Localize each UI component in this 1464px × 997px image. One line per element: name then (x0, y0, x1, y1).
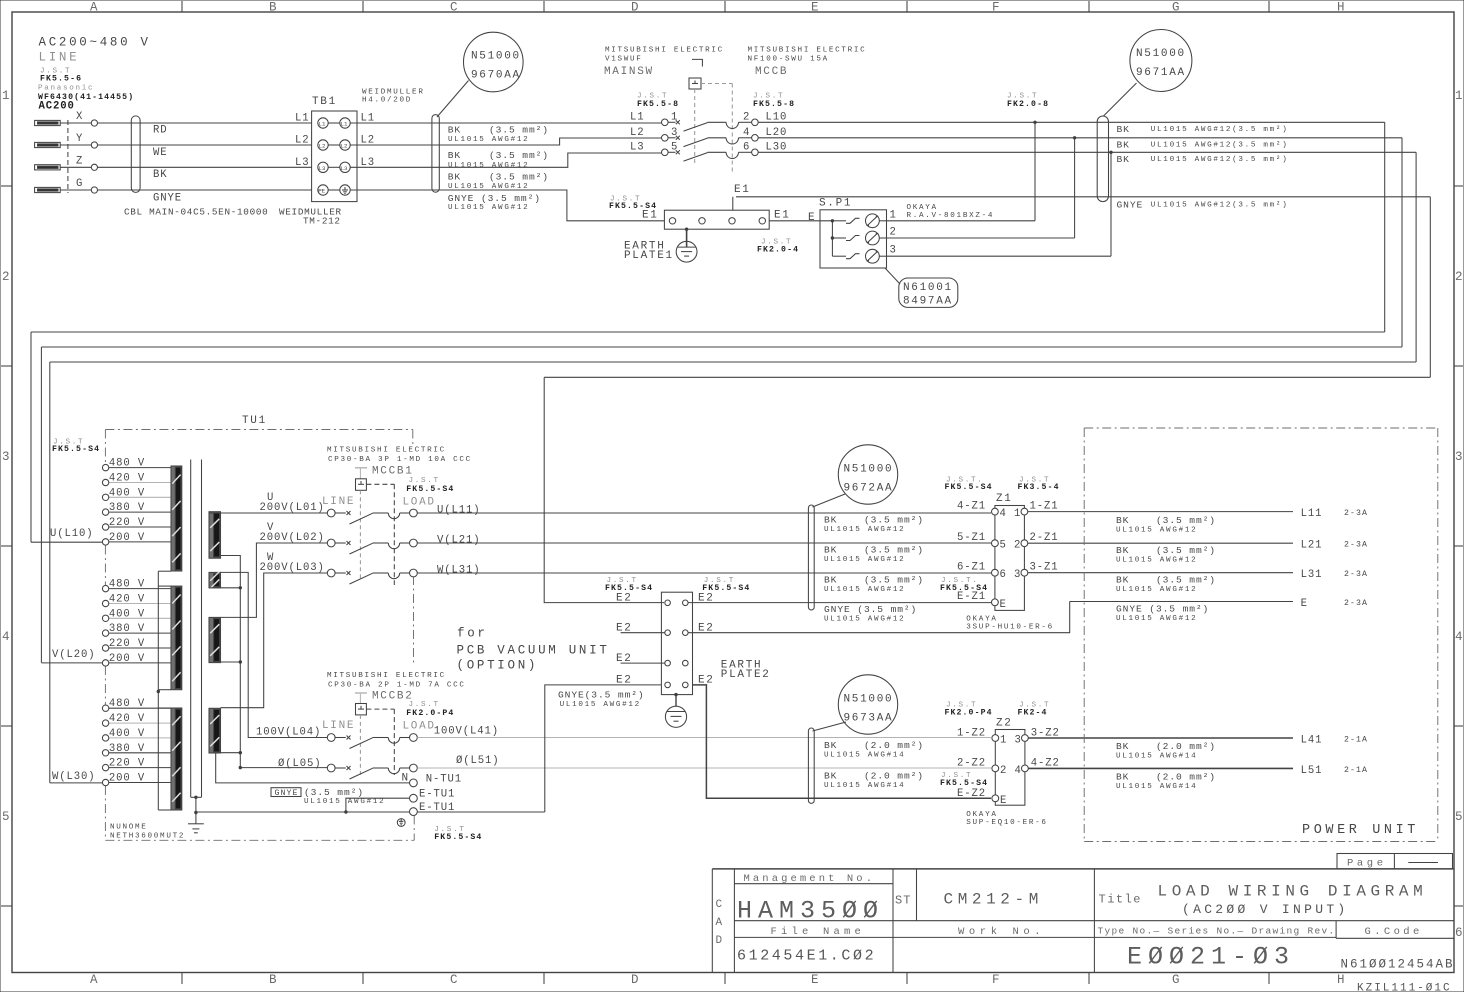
svg-text:C: C (450, 973, 460, 987)
svg-text:TB1: TB1 (312, 96, 337, 108)
svg-text:BK: BK (1116, 741, 1129, 752)
TU1 primary winding P2 (171, 586, 182, 690)
svg-text:FK5.5-S4: FK5.5-S4 (940, 584, 988, 593)
svg-text:BK: BK (1117, 154, 1130, 165)
svg-text:3: 3 (1455, 450, 1464, 464)
dashed cable boundary at input (67, 120, 69, 193)
svg-text:BK: BK (448, 124, 461, 135)
svg-text:(3.5 mm²): (3.5 mm²) (489, 172, 549, 183)
wire E1 riser to GNYE bus (732, 197, 734, 210)
svg-text:4-Z1: 4-Z1 (957, 501, 986, 513)
svg-text:GNYE: GNYE (153, 193, 182, 205)
svg-text:BK: BK (1117, 124, 1130, 135)
svg-text:L10: L10 (766, 111, 788, 123)
svg-text:EØØ21-Ø3: EØØ21-Ø3 (1127, 943, 1295, 972)
svg-text:2: 2 (743, 111, 750, 123)
svg-text:File Name: File Name (771, 926, 866, 938)
TU1 primary tap 220 V group 3 (109, 767, 171, 769)
svg-text:3: 3 (671, 127, 678, 139)
svg-text:LINE: LINE (322, 496, 355, 508)
svg-text:MCCB2: MCCB2 (372, 691, 414, 703)
svg-text:UL1015 AWG#14: UL1015 AWG#14 (824, 782, 905, 790)
TB1 terminal pair L3 (318, 162, 328, 172)
svg-text:UL1015 AWG#12(3.5 mm²): UL1015 AWG#12(3.5 mm²) (1151, 125, 1289, 134)
svg-text:BK: BK (824, 771, 837, 782)
svg-text:GNYE: GNYE (1117, 200, 1144, 211)
wire Z to TB1 (60, 166, 91, 168)
svg-text:(AC2ØØ V INPUT): (AC2ØØ V INPUT) (1182, 902, 1349, 917)
wire W(L31) to Z1 (417, 572, 991, 574)
TU1 primary tap 380 V group 2 (109, 632, 171, 634)
svg-text:Z2: Z2 (996, 718, 1013, 730)
svg-text:420 V: 420 V (109, 473, 145, 485)
wire Z2 out 3 to L41 (1028, 737, 1293, 739)
svg-text:D: D (631, 973, 641, 987)
svg-text:for: for (457, 627, 488, 641)
svg-text:9671AA: 9671AA (1136, 67, 1186, 79)
MCCB1 operator box (356, 479, 367, 491)
MCCB2 linkage dashed black (366, 708, 394, 710)
cable sheath capsule right (1097, 116, 1108, 202)
svg-text:3: 3 (1015, 735, 1022, 747)
svg-text:UL1015 AWG#12: UL1015 AWG#12 (1116, 527, 1197, 535)
svg-text:UL1015 AWG#14: UL1015 AWG#14 (1116, 783, 1197, 791)
svg-text:N61ØØ12454AB: N61ØØ12454AB (1341, 958, 1455, 972)
svg-text:N51000: N51000 (1136, 48, 1186, 60)
svg-text:AC200~480 V: AC200~480 V (39, 36, 151, 50)
MAINSW operator box (689, 78, 701, 89)
TU1 primary tap 420 V group 2 (109, 603, 171, 605)
svg-text:(3.5 mm²): (3.5 mm²) (1156, 545, 1216, 556)
svg-text:BK: BK (824, 545, 837, 556)
svg-text:5: 5 (671, 141, 678, 153)
svg-text:4: 4 (743, 127, 750, 139)
wire L10 to right edge (758, 121, 1384, 123)
svg-text:2-3A: 2-3A (1344, 509, 1368, 518)
svg-text:8497AA: 8497AA (903, 296, 953, 308)
crimp terminal lead G (35, 187, 61, 192)
svg-text:E-TU1: E-TU1 (419, 789, 455, 801)
svg-text:N51000: N51000 (844, 464, 894, 476)
svg-text:2: 2 (2, 270, 12, 284)
svg-text:200V(L03): 200V(L03) (260, 562, 325, 574)
svg-text:Z: Z (76, 155, 83, 167)
svg-text:UL1015 AWG#12: UL1015 AWG#12 (448, 183, 529, 191)
TU1 primary tap 220 V group 1 (109, 526, 171, 528)
svg-text:X: X (76, 111, 83, 123)
svg-text:UL1015 AWG#12: UL1015 AWG#12 (1116, 557, 1197, 565)
svg-text:G: G (1172, 1, 1182, 15)
TU1 secondary winding A (209, 512, 221, 559)
MCCB2 pole 2 (327, 764, 335, 772)
svg-text:S.P1: S.P1 (819, 198, 852, 210)
svg-text:(3.5 mm²): (3.5 mm²) (489, 150, 549, 161)
TU1 primary tap 380 V group 1 (109, 511, 171, 513)
ground symbol earth plate2 (675, 695, 677, 707)
svg-text:W(L31): W(L31) (437, 565, 481, 577)
svg-text:380 V: 380 V (109, 743, 145, 755)
svg-text:C: C (716, 899, 724, 911)
Z2 terminal pair 1/3 (992, 735, 999, 742)
wire E1 plate to S.P1 (769, 220, 832, 222)
svg-text:FK5.5-S4: FK5.5-S4 (945, 483, 993, 492)
svg-text:(2.0 mm²): (2.0 mm²) (864, 771, 924, 782)
svg-text:L2: L2 (295, 135, 310, 147)
terminal plate E2 (earth plate 2) (661, 592, 692, 694)
TU1 primary tap 480 V group 2 (109, 588, 171, 590)
svg-text:LOAD: LOAD (403, 497, 436, 509)
svg-text:L1: L1 (319, 121, 326, 128)
wire U(L11) to Z1 (417, 512, 991, 514)
svg-text:BK: BK (824, 575, 837, 586)
MAINSW operator handle mark (692, 59, 702, 66)
svg-text:FK5.5-S4: FK5.5-S4 (52, 445, 100, 454)
svg-text:NETH3600MUT2: NETH3600MUT2 (110, 833, 185, 841)
svg-text:6: 6 (1000, 569, 1007, 581)
crimp terminal lead X (35, 120, 61, 125)
svg-text:L3: L3 (295, 157, 310, 169)
svg-text:G: G (76, 178, 83, 190)
svg-text:1: 1 (890, 209, 897, 221)
wire V(L21) to Z1 (417, 542, 991, 544)
svg-text:2-1A: 2-1A (1344, 766, 1368, 775)
svg-text:F: F (992, 973, 1002, 987)
svg-text:1-Z1: 1-Z1 (1030, 501, 1059, 513)
wire Z1 out 2 to L21 (1028, 542, 1293, 544)
svg-text:PLATE1: PLATE1 (624, 250, 674, 262)
TU1 primary tap 380 V group 3 (109, 752, 171, 754)
svg-text:MCCB1: MCCB1 (372, 466, 414, 478)
svg-text:OKAYA: OKAYA (966, 811, 997, 819)
svg-text:UL1015 AWG#12: UL1015 AWG#12 (448, 204, 529, 212)
svg-text:LOAD: LOAD (403, 721, 436, 733)
svg-text:(3.5 mm²): (3.5 mm²) (304, 787, 364, 798)
svg-text:UL1015 AWG#12: UL1015 AWG#12 (824, 586, 905, 594)
TU1 primary tap 480 V group 3 (109, 707, 171, 709)
svg-text:3: 3 (890, 245, 897, 257)
wire E2 row1 to Z1 E (688, 602, 991, 604)
svg-text:D: D (631, 1, 641, 15)
svg-text:Management No.: Management No. (744, 873, 876, 885)
TU1 primary tap 400 V group 3 (109, 737, 171, 739)
balloon N51000 9670AA (464, 32, 524, 92)
TU1 primary series rail (157, 571, 159, 810)
svg-text:400 V: 400 V (109, 608, 145, 620)
Z1 terminal pair 6/3 (992, 569, 999, 576)
S.P1 arrester element 3 (832, 255, 846, 257)
svg-text:100V(L41): 100V(L41) (434, 726, 499, 738)
svg-text:(3.5 mm²): (3.5 mm²) (1156, 515, 1216, 526)
svg-text:420 V: 420 V (109, 594, 145, 606)
svg-text:Page: Page (1347, 858, 1387, 870)
svg-text:(3.5 mm²): (3.5 mm²) (864, 545, 924, 556)
bus wire GNYE vertical to E2 (544, 377, 664, 602)
svg-text:2: 2 (1000, 765, 1007, 777)
svg-text:CP30-BA 3P 1-MD 10A CCC: CP30-BA 3P 1-MD 10A CCC (328, 456, 472, 464)
wire E output (1070, 601, 1293, 603)
MAINSW linkage dashed (694, 89, 696, 163)
wire Z1 out 1 to L11 (1028, 511, 1293, 513)
svg-text:6: 6 (1455, 926, 1464, 940)
wire Z2 out 4 to L51 (1028, 767, 1293, 769)
svg-text:3SUP-HU10-ER-6: 3SUP-HU10-ER-6 (966, 623, 1054, 631)
TU1 core to ground (191, 796, 202, 798)
balloon N51000 9673AA (838, 675, 897, 734)
svg-text:(3.5 mm²): (3.5 mm²) (489, 124, 549, 135)
MCCB thermal element pole 2 (708, 121, 727, 123)
TU1 primary tap 400 V group 1 (109, 496, 171, 498)
svg-text:Z1: Z1 (996, 493, 1013, 505)
svg-text:BK: BK (1116, 575, 1129, 586)
svg-text:V(L20): V(L20) (52, 649, 96, 661)
svg-text:UL1015 AWG#12: UL1015 AWG#12 (824, 556, 905, 564)
svg-text:PLATE2: PLATE2 (721, 669, 771, 681)
svg-text:220 V: 220 V (109, 758, 145, 770)
wire L2 TB1 to MAINSW (jog) (350, 138, 661, 145)
TU1 box right edge lower (413, 816, 415, 841)
svg-text:1-Z2: 1-Z2 (957, 727, 986, 739)
svg-text:MITSUBISHI ELECTRIC: MITSUBISHI ELECTRIC (327, 447, 446, 455)
svg-text:FK5.5-8: FK5.5-8 (637, 100, 679, 109)
svg-text:H: H (1337, 1, 1347, 15)
svg-text:BK: BK (1116, 515, 1129, 526)
svg-text:200V(L02): 200V(L02) (260, 532, 325, 544)
svg-text:CP30-BA 2P 1-MD 7A CCC: CP30-BA 2P 1-MD 7A CCC (328, 682, 466, 690)
cable sheath capsule 2 (432, 115, 439, 193)
svg-text:(3.5 mm²): (3.5 mm²) (864, 575, 924, 586)
MCCB linkage dashed (701, 83, 732, 85)
svg-text:400 V: 400 V (109, 728, 145, 740)
svg-text:LINE: LINE (39, 51, 80, 65)
wire Z1 out 3 to L31 (1028, 572, 1293, 574)
svg-text:UL1015 AWG#12(3.5 mm²): UL1015 AWG#12(3.5 mm²) (1151, 141, 1289, 150)
MCCB1 pole 3 (327, 569, 335, 577)
wire GNYE E1 to right edge (736, 196, 1430, 198)
svg-text:480 V: 480 V (109, 698, 145, 710)
svg-text:E2: E2 (616, 593, 633, 605)
svg-text:2-3A: 2-3A (1344, 599, 1368, 608)
svg-text:POWER UNIT: POWER UNIT (1302, 823, 1419, 838)
svg-text:A: A (716, 917, 724, 929)
S.P1 arrester element 1 (832, 220, 846, 222)
TU1 primary winding P1 (171, 466, 182, 571)
svg-text:MAINSW: MAINSW (604, 66, 654, 78)
svg-text:FK5.5-S4: FK5.5-S4 (434, 833, 482, 842)
svg-text:FK2.0-8: FK2.0-8 (1007, 100, 1049, 109)
svg-text:L41: L41 (1301, 735, 1323, 747)
svg-text:MITSUBISHI ELECTRIC: MITSUBISHI ELECTRIC (748, 47, 867, 55)
TU1 primary tap 400 V group 2 (109, 617, 171, 619)
svg-text:2-1A: 2-1A (1344, 736, 1368, 745)
svg-text:2-3A: 2-3A (1344, 570, 1368, 579)
svg-text:A: A (90, 1, 100, 15)
S.P1 pin 1 wire (887, 220, 1036, 222)
bus wire L30 left vertical (49, 362, 51, 783)
svg-text:Ø(L05): Ø(L05) (278, 758, 322, 770)
svg-text:4: 4 (2, 630, 12, 644)
svg-text:GNYE(3.5 mm²): GNYE(3.5 mm²) (558, 690, 645, 701)
svg-text:E1: E1 (734, 184, 751, 196)
cable sheath capsule Z1 (808, 505, 814, 610)
svg-text:UL1015 AWG#12(3.5 mm²): UL1015 AWG#12(3.5 mm²) (1151, 155, 1289, 164)
svg-text:MITSUBISHI ELECTRIC: MITSUBISHI ELECTRIC (605, 47, 724, 55)
svg-text:FK2.0-P4: FK2.0-P4 (406, 709, 454, 718)
svg-text:GNYE: GNYE (275, 789, 299, 798)
svg-text:UL1015 AWG#12: UL1015 AWG#12 (824, 526, 905, 534)
wire L20 to right edge (758, 137, 1402, 139)
svg-text:L2: L2 (630, 127, 645, 139)
svg-text:L3: L3 (319, 165, 326, 172)
wire GNYE TB1 to earth plate E1 (jog) (350, 190, 664, 221)
svg-text:TU1: TU1 (242, 415, 267, 427)
svg-text:BK: BK (1116, 772, 1129, 783)
svg-text:2: 2 (1455, 270, 1464, 284)
svg-text:GNYE (3.5 mm²): GNYE (3.5 mm²) (448, 193, 541, 204)
svg-text:UL1015 AWG#12: UL1015 AWG#12 (1116, 615, 1197, 623)
svg-text:H: H (1337, 973, 1347, 987)
svg-text:LOAD WIRING DIAGRAM: LOAD WIRING DIAGRAM (1158, 883, 1428, 901)
svg-text:Title: Title (1099, 893, 1143, 907)
POWER UNIT chain-line box (1084, 427, 1438, 429)
svg-text:380 V: 380 V (109, 502, 145, 514)
svg-text:2-3A: 2-3A (1344, 541, 1368, 550)
svg-text:(2.0 mm²): (2.0 mm²) (1156, 741, 1216, 752)
S.P1 pin 2 wire (887, 237, 1075, 239)
MCCB2 linkage dashed gray (359, 715, 361, 778)
wire Y to TB1 (60, 144, 91, 146)
bus wire GNYE top (544, 376, 1430, 378)
svg-text:5: 5 (1000, 540, 1007, 552)
wire E2 row4 right to Z2 E (693, 685, 992, 798)
S.P1 arrester element 2 (832, 237, 846, 239)
svg-text:OKAYA: OKAYA (966, 615, 997, 623)
svg-text:UL1015 AWG#12: UL1015 AWG#12 (304, 798, 385, 806)
wire secondary B top to MCCB2 100V LINE (221, 572, 328, 737)
svg-text:BK: BK (824, 740, 837, 751)
svg-text:E-Z2: E-Z2 (957, 788, 986, 800)
svg-text:L31: L31 (1301, 569, 1323, 581)
svg-text:6-Z1: 6-Z1 (957, 562, 986, 574)
svg-text:A: A (90, 973, 100, 987)
svg-text:1: 1 (2, 89, 12, 103)
wire vertical right edge 1 (1384, 122, 1386, 332)
svg-text:GNYE (3.5 mm²): GNYE (3.5 mm²) (824, 604, 917, 615)
TB1 terminal pair L1 (318, 118, 328, 128)
TU1 secondary winding B (209, 572, 221, 587)
wire 0(L51) to Z2 (417, 767, 991, 769)
svg-text:1: 1 (1014, 508, 1021, 520)
svg-text:V1SWUF: V1SWUF (605, 56, 643, 64)
svg-text:480 V: 480 V (109, 458, 145, 470)
svg-text:480 V: 480 V (109, 579, 145, 591)
balloon N51000 9671AA (1130, 30, 1192, 92)
svg-text:FK2.0-4: FK2.0-4 (757, 245, 799, 254)
svg-text:L11: L11 (1301, 508, 1323, 520)
TU1 primary winding P3 (171, 708, 182, 810)
MCCB thermal element pole 6 (708, 151, 727, 153)
svg-text:(OPTION): (OPTION) (457, 659, 539, 673)
svg-text:5: 5 (1455, 810, 1464, 824)
MCCB2 operator box (356, 704, 367, 715)
MAINSW pole 3-4 contacts and blade (662, 135, 669, 142)
wire winding D bottom to N-TU1 (216, 753, 410, 783)
svg-text:220 V: 220 V (109, 517, 145, 529)
svg-text:AC200: AC200 (39, 101, 75, 113)
svg-text:(2.0 mm²): (2.0 mm²) (864, 740, 924, 751)
svg-text:BK: BK (824, 515, 837, 526)
svg-text:(3.5 mm²): (3.5 mm²) (864, 515, 924, 526)
svg-text:WE: WE (153, 147, 168, 159)
svg-text:N61001: N61001 (903, 282, 953, 294)
svg-text:UL1015 AWG#14: UL1015 AWG#14 (824, 752, 905, 760)
svg-text:UL1015 AWG#14: UL1015 AWG#14 (1116, 753, 1197, 761)
svg-text:100V(L04): 100V(L04) (256, 726, 321, 738)
svg-text:2: 2 (1014, 540, 1021, 552)
svg-text:4: 4 (1000, 508, 1007, 520)
svg-text:ST: ST (895, 894, 911, 908)
svg-text:CBL MAIN-04C5.5EN-10000: CBL MAIN-04C5.5EN-10000 (124, 207, 268, 218)
svg-text:TM-212: TM-212 (303, 216, 341, 227)
junction dot L20/SP1 (1073, 136, 1076, 139)
svg-text:200 V: 200 V (109, 773, 145, 785)
junction dot E1 plate to ground (685, 228, 688, 231)
svg-text:2-Z2: 2-Z2 (957, 758, 986, 770)
wire X to TB1 (60, 122, 91, 124)
svg-text:WEIDMULLER: WEIDMULLER (362, 89, 425, 97)
MCCB1 linkage dashed gray (359, 490, 361, 580)
wire G to TB1 (60, 189, 91, 191)
svg-text:220 V: 220 V (109, 638, 145, 650)
wire vertical right edge 3 (1415, 152, 1417, 362)
svg-text:200 V: 200 V (109, 532, 145, 544)
svg-text:FK2-4: FK2-4 (1018, 709, 1048, 718)
svg-text:L20: L20 (766, 127, 788, 139)
svg-text:V(L21): V(L21) (437, 535, 481, 547)
title block frame (712, 868, 1454, 870)
svg-text:Type No.— Series No.— Drawing: Type No.— Series No.— Drawing Rev. (1098, 926, 1336, 937)
svg-text:420 V: 420 V (109, 713, 145, 725)
wire vertical right edge GNYE (1429, 197, 1431, 377)
wire E-TU1 bus (196, 811, 410, 813)
svg-text:L1: L1 (341, 121, 348, 128)
svg-text:4: 4 (1455, 630, 1464, 644)
balloon N61001 8497AA (899, 278, 958, 307)
TU1 secondary winding C (209, 617, 221, 662)
svg-text:MCCB: MCCB (755, 66, 788, 78)
svg-text:3: 3 (2, 450, 12, 464)
TU1 primary tap 220 V group 2 (109, 647, 171, 649)
bus wire L10 top (31, 331, 1385, 333)
junction dot L10/SP1 (1033, 121, 1036, 124)
title block Page box (1337, 854, 1453, 869)
wire L3 TB1 to MAINSW (jog) (350, 153, 661, 167)
svg-text:E1: E1 (642, 210, 659, 222)
wire L30 to right edge (758, 151, 1416, 153)
svg-text:E: E (811, 973, 821, 987)
svg-text:L3: L3 (630, 141, 645, 153)
MCCB2 pole 1 (327, 734, 335, 742)
svg-text:FK2.0-P4: FK2.0-P4 (945, 709, 993, 718)
svg-text:J.S.T: J.S.T (409, 701, 440, 709)
svg-text:Ø(L51): Ø(L51) (456, 755, 500, 767)
bus wire L20 left vertical (40, 347, 42, 663)
MCCB thermal element pole 4 (708, 137, 727, 139)
svg-text:9673AA: 9673AA (844, 713, 894, 725)
bus wire L10 left vertical (30, 332, 32, 542)
cable sheath CBL MAIN (capsule) (131, 116, 140, 192)
svg-text:L3: L3 (341, 165, 348, 172)
MAINSW pole 1-2 contacts and blade (662, 119, 669, 126)
